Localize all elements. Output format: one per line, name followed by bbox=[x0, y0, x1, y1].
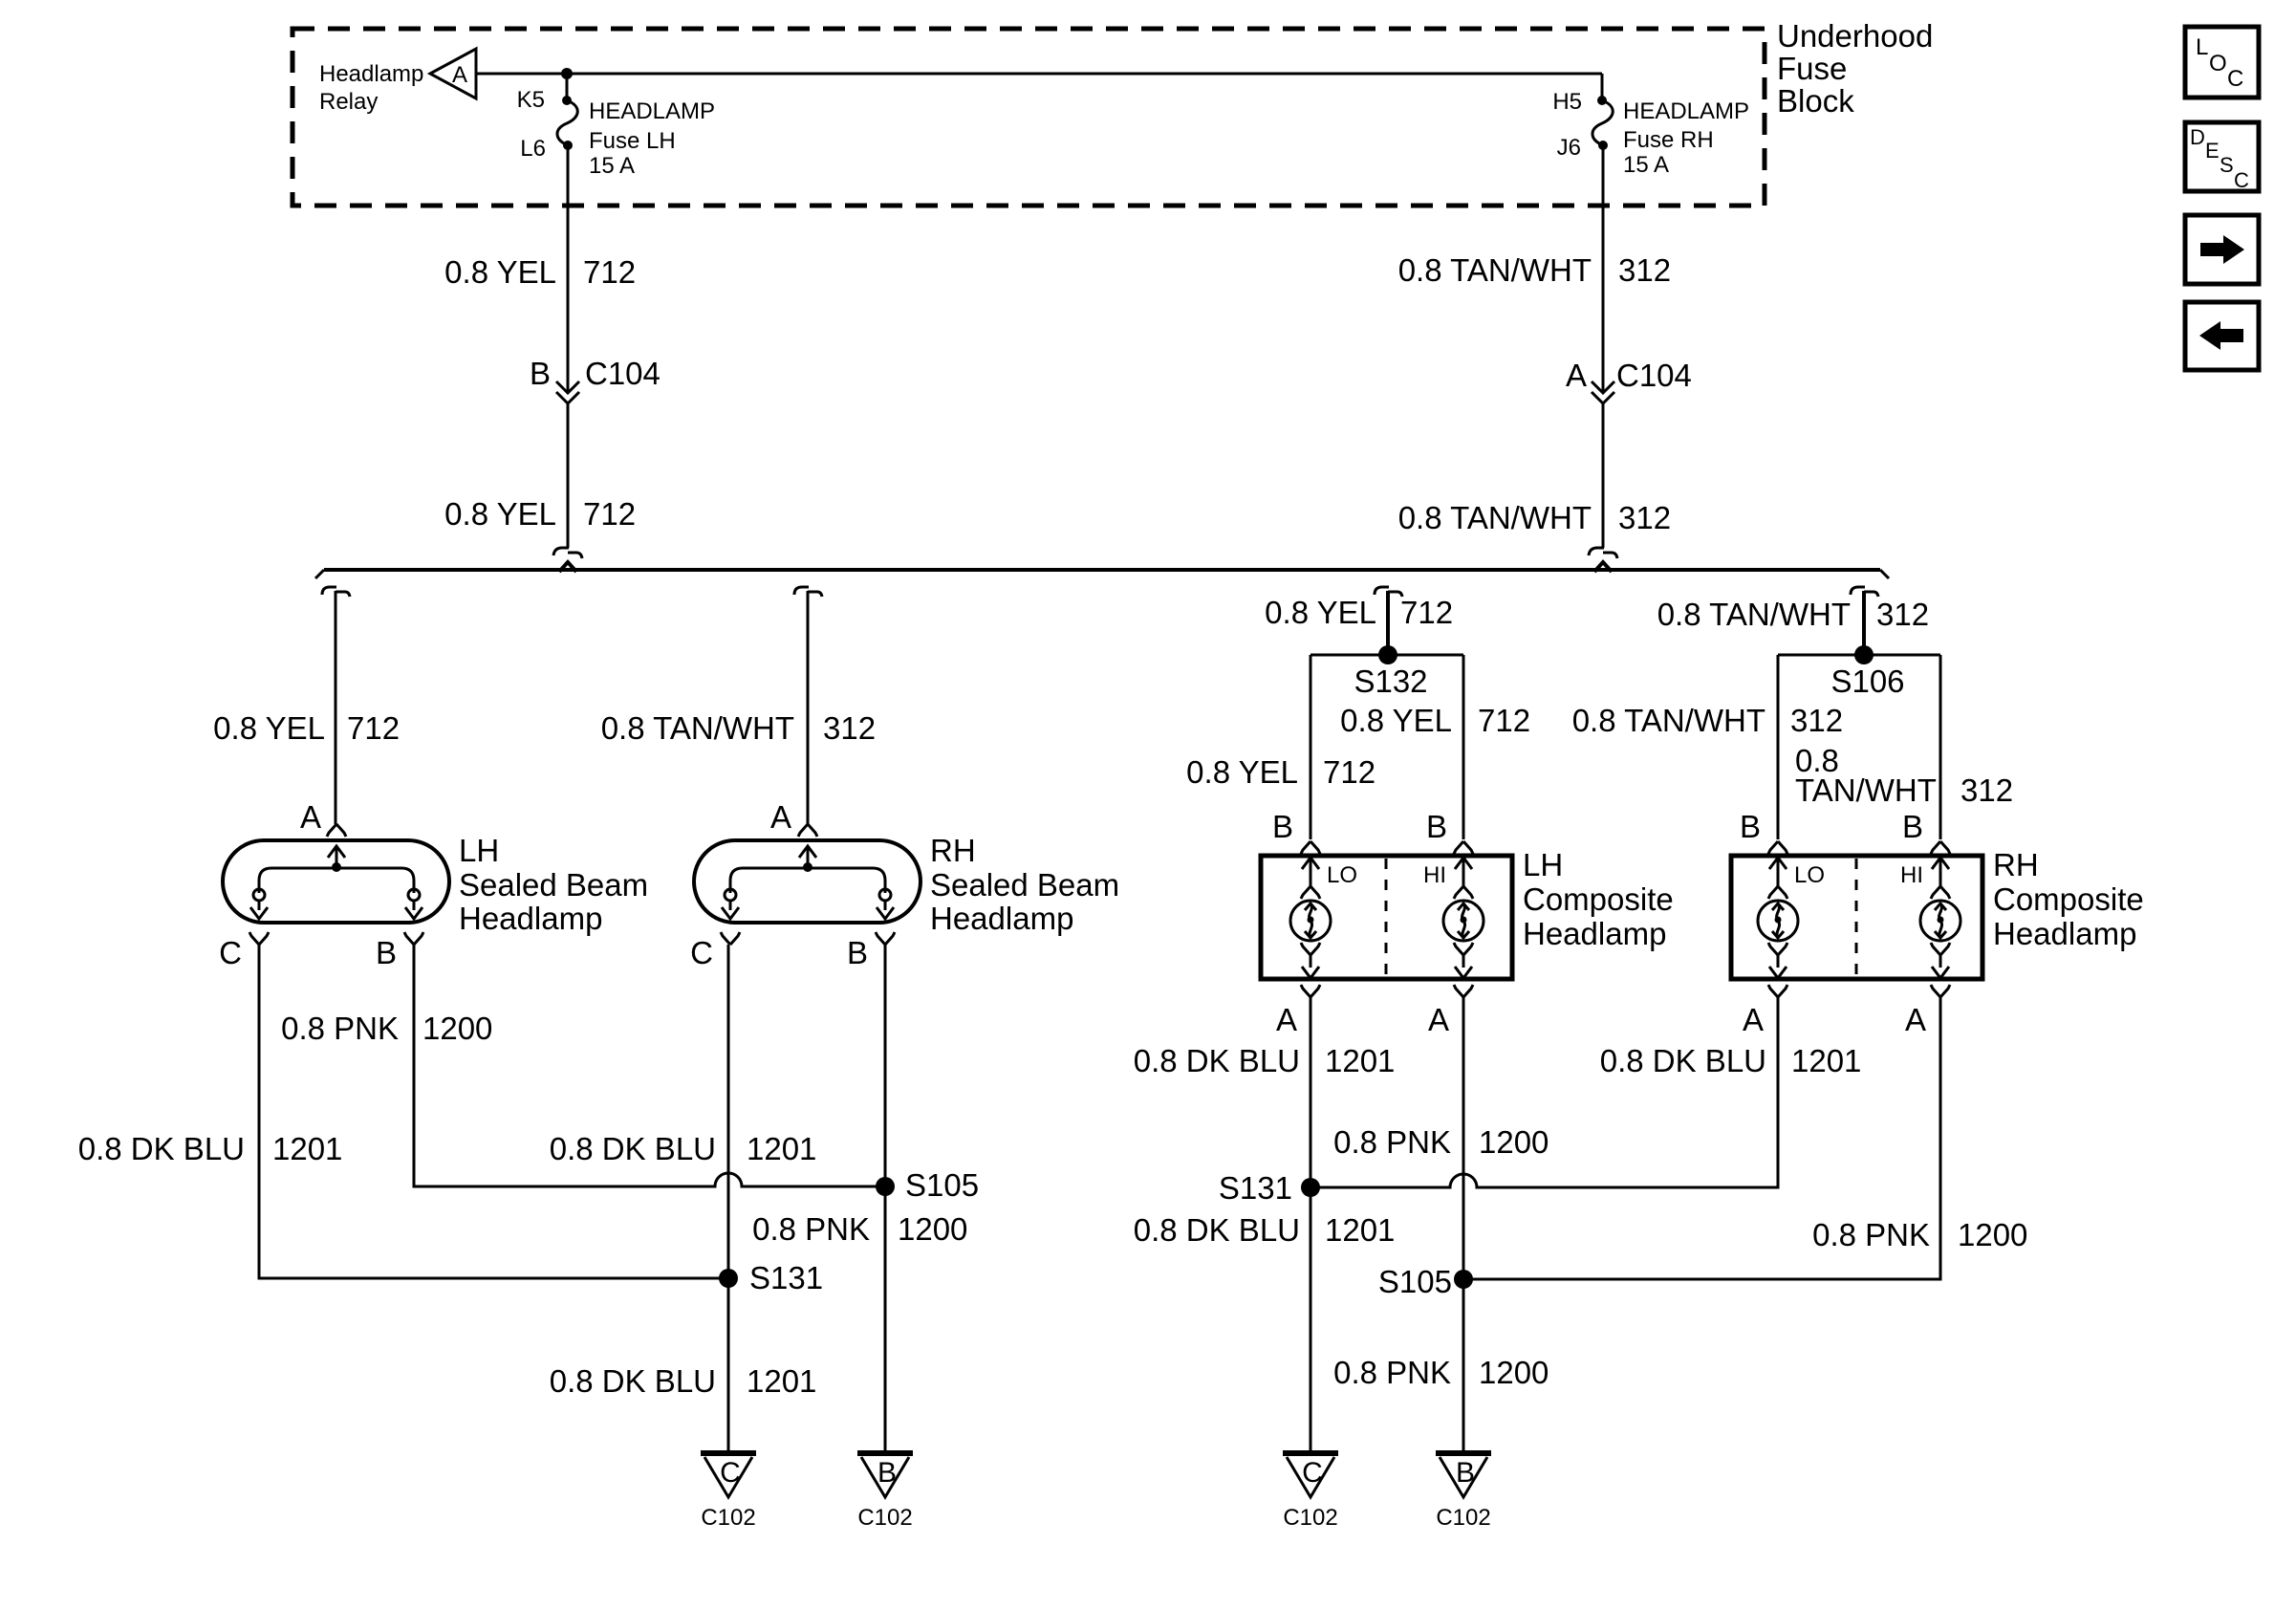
svg-text:0.8 PNK: 0.8 PNK bbox=[1333, 1124, 1451, 1160]
LH Sealed Beam Headlamp oval body bbox=[223, 840, 449, 923]
terminal A fork bbox=[327, 824, 346, 837]
svg-text:L: L bbox=[2196, 34, 2208, 60]
terminal B fork bbox=[404, 932, 423, 945]
fuse HEADLAMP Fuse LH 15A bbox=[557, 100, 577, 145]
svg-text:C: C bbox=[690, 935, 713, 970]
svg-text:B: B bbox=[1426, 809, 1447, 844]
svg-text:0.8 TAN/WHT: 0.8 TAN/WHT bbox=[1572, 703, 1765, 738]
svg-text:Relay: Relay bbox=[319, 89, 378, 115]
svg-text:K5: K5 bbox=[517, 87, 545, 113]
svg-text:0.8 PNK: 0.8 PNK bbox=[752, 1211, 870, 1247]
terminal A fork bbox=[798, 824, 817, 837]
bulb HI column bbox=[1931, 841, 1950, 854]
svg-text:C: C bbox=[2227, 66, 2243, 92]
svg-text:Headlamp: Headlamp bbox=[1993, 916, 2136, 951]
svg-text:A: A bbox=[1276, 1002, 1297, 1037]
svg-text:S132: S132 bbox=[1354, 664, 1427, 699]
wire 0.8 TAN/WHT 312 from fuse RH bbox=[1602, 145, 1605, 392]
fuse HEADLAMP Fuse RH 15A bbox=[1592, 100, 1613, 145]
svg-text:Sealed Beam: Sealed Beam bbox=[459, 867, 648, 903]
internal arrow and filament bbox=[328, 846, 345, 858]
svg-text:0.8 TAN/WHT: 0.8 TAN/WHT bbox=[1657, 597, 1851, 632]
svg-text:1200: 1200 bbox=[1958, 1217, 2027, 1252]
svg-text:312: 312 bbox=[1790, 703, 1843, 738]
RH Sealed Beam Headlamp oval body bbox=[694, 840, 921, 923]
svg-text:A: A bbox=[452, 62, 467, 88]
svg-text:S131: S131 bbox=[749, 1260, 823, 1295]
wire corner down to fuse RH pin H5 bbox=[1601, 74, 1604, 100]
svg-text:S131: S131 bbox=[1219, 1170, 1292, 1206]
bulb HI column bbox=[1454, 841, 1473, 854]
splice S106 bbox=[1854, 645, 1874, 664]
svg-text:C102: C102 bbox=[701, 1505, 755, 1531]
svg-text:0.8 DK BLU: 0.8 DK BLU bbox=[1134, 1212, 1300, 1248]
svg-text:Composite: Composite bbox=[1993, 881, 2144, 917]
svg-text:C102: C102 bbox=[1283, 1505, 1337, 1531]
svg-text:312: 312 bbox=[823, 710, 876, 746]
svg-text:1201: 1201 bbox=[1791, 1043, 1861, 1078]
svg-text:0.8 YEL: 0.8 YEL bbox=[213, 710, 325, 746]
pin K5 bbox=[562, 96, 572, 105]
svg-text:312: 312 bbox=[1960, 772, 2013, 808]
svg-text:1201: 1201 bbox=[747, 1131, 816, 1166]
svg-text:0.8 TAN/WHT: 0.8 TAN/WHT bbox=[1398, 500, 1592, 535]
wire RH sealed C down to C102 bbox=[727, 945, 730, 1451]
svg-text:712: 712 bbox=[583, 254, 636, 290]
svg-text:312: 312 bbox=[1876, 597, 1929, 632]
RH Composite Headlamp box bbox=[1731, 856, 1982, 979]
splice S105 bbox=[1454, 1270, 1473, 1289]
svg-text:LH: LH bbox=[1523, 847, 1563, 882]
wire stub to splice S132 bbox=[1375, 587, 1402, 597]
svg-text:1200: 1200 bbox=[898, 1211, 967, 1247]
svg-text:Composite: Composite bbox=[1523, 881, 1674, 917]
wire drop to LH sealed beam bbox=[322, 587, 350, 597]
connector C102 terminal C triangle bbox=[1283, 1450, 1338, 1456]
svg-text:0.8 YEL: 0.8 YEL bbox=[444, 254, 556, 290]
Underhood Fuse Block dashed box bbox=[292, 29, 1765, 206]
wire RH composite HI(A) to S105 bbox=[1463, 997, 1940, 1279]
svg-text:312: 312 bbox=[1618, 500, 1671, 535]
svg-text:S105: S105 bbox=[1378, 1264, 1452, 1299]
svg-text:0.8 YEL: 0.8 YEL bbox=[1186, 754, 1298, 790]
svg-text:712: 712 bbox=[1323, 754, 1375, 790]
wire to LH composite LO bbox=[1310, 655, 1312, 839]
svg-text:0.8 DK BLU: 0.8 DK BLU bbox=[550, 1363, 716, 1399]
splice S132 bbox=[1378, 645, 1397, 664]
svg-text:0.8 TAN/WHT: 0.8 TAN/WHT bbox=[601, 710, 794, 746]
svg-text:15 A: 15 A bbox=[1623, 152, 1669, 178]
svg-text:S: S bbox=[2220, 153, 2234, 177]
connector C102 terminal B triangle bbox=[1436, 1450, 1491, 1456]
wire relay to fuses bbox=[476, 73, 1602, 76]
svg-text:C102: C102 bbox=[1436, 1505, 1490, 1531]
svg-text:712: 712 bbox=[1478, 703, 1530, 738]
svg-text:TAN/WHT: TAN/WHT bbox=[1795, 772, 1937, 808]
svg-text:A: A bbox=[1905, 1002, 1926, 1037]
wire LH composite HI(A) to S105 down to C102 bbox=[1462, 997, 1465, 1451]
svg-text:0.8 DK BLU: 0.8 DK BLU bbox=[1134, 1043, 1300, 1078]
wire S132 branch bbox=[1310, 654, 1463, 657]
svg-text:HI: HI bbox=[1900, 862, 1923, 888]
svg-text:H5: H5 bbox=[1552, 89, 1582, 115]
bulb LO column bbox=[1768, 841, 1787, 854]
connector C102 terminal B triangle bbox=[857, 1450, 913, 1456]
svg-text:C: C bbox=[219, 935, 242, 970]
svg-text:B: B bbox=[847, 935, 868, 970]
svg-text:C: C bbox=[1302, 1457, 1323, 1489]
svg-text:1201: 1201 bbox=[1325, 1212, 1395, 1248]
svg-text:C: C bbox=[2234, 168, 2249, 192]
svg-text:RH: RH bbox=[1993, 847, 2039, 882]
svg-text:A: A bbox=[1428, 1002, 1449, 1037]
Headlamp Relay connector triangle A bbox=[430, 49, 476, 98]
svg-text:J6: J6 bbox=[1557, 135, 1581, 161]
LOC nav box bbox=[2185, 27, 2259, 98]
svg-text:LO: LO bbox=[1794, 862, 1825, 888]
left arrow nav box bbox=[2185, 302, 2259, 370]
svg-text:B: B bbox=[1456, 1457, 1475, 1489]
wire RH sealed B down to C102 bbox=[884, 945, 887, 1451]
svg-text:HEADLAMP: HEADLAMP bbox=[589, 98, 715, 124]
wire LH sealed B to S105 with hop bbox=[414, 945, 885, 1186]
svg-text:E: E bbox=[2205, 139, 2220, 163]
splice S131 bbox=[1301, 1178, 1320, 1197]
wire 0.8 YEL 712 below C104 bbox=[567, 403, 570, 548]
internal arrow and filament bbox=[799, 846, 816, 858]
wire drop to RH sealed beam bbox=[794, 587, 822, 597]
svg-text:15 A: 15 A bbox=[589, 153, 635, 179]
wire LH composite LO(A) to S131 down to C102 bbox=[1310, 997, 1312, 1451]
DESC nav box bbox=[2185, 122, 2259, 191]
svg-text:Fuse RH: Fuse RH bbox=[1623, 127, 1714, 153]
svg-text:B: B bbox=[1272, 809, 1293, 844]
svg-text:S106: S106 bbox=[1830, 664, 1904, 699]
svg-text:B: B bbox=[877, 1457, 897, 1489]
svg-text:O: O bbox=[2209, 51, 2227, 76]
wire to fuse LH pin K5 bbox=[566, 74, 569, 100]
svg-text:D: D bbox=[2190, 125, 2205, 149]
svg-text:712: 712 bbox=[583, 496, 636, 532]
terminal C fork bbox=[249, 932, 269, 945]
svg-text:1201: 1201 bbox=[272, 1131, 342, 1166]
wire LH sealed C to S131 bbox=[259, 945, 728, 1278]
svg-text:B: B bbox=[1740, 809, 1761, 844]
splice S105 bbox=[876, 1177, 895, 1196]
svg-text:B: B bbox=[1902, 809, 1923, 844]
svg-text:B: B bbox=[376, 935, 397, 970]
svg-text:Fuse LH: Fuse LH bbox=[589, 128, 676, 154]
svg-text:S105: S105 bbox=[905, 1167, 979, 1203]
svg-text:0.8 PNK: 0.8 PNK bbox=[1812, 1217, 1930, 1252]
wire stub to splice S106 bbox=[1851, 587, 1878, 597]
wire to RH composite LO bbox=[1777, 655, 1780, 839]
svg-text:A: A bbox=[1566, 358, 1587, 393]
wire to LH composite HI bbox=[1462, 655, 1465, 839]
wire 0.8 TAN/WHT 312 below C104 bbox=[1602, 403, 1605, 548]
svg-text:0.8 YEL: 0.8 YEL bbox=[1265, 595, 1376, 630]
wire 0.8 YEL 712 from fuse LH bbox=[567, 145, 570, 392]
junction node bbox=[561, 68, 573, 79]
svg-text:0.8 DK BLU: 0.8 DK BLU bbox=[550, 1131, 716, 1166]
svg-text:C: C bbox=[720, 1457, 741, 1489]
svg-text:712: 712 bbox=[347, 710, 400, 746]
svg-text:B: B bbox=[530, 356, 551, 391]
svg-text:1201: 1201 bbox=[1325, 1043, 1395, 1078]
wire break to bus bbox=[553, 548, 582, 558]
svg-text:1200: 1200 bbox=[1479, 1124, 1549, 1160]
svg-text:0.8 DK BLU: 0.8 DK BLU bbox=[1600, 1043, 1766, 1078]
svg-text:Fuse: Fuse bbox=[1777, 51, 1847, 86]
svg-text:L6: L6 bbox=[520, 136, 546, 162]
svg-text:1200: 1200 bbox=[422, 1011, 492, 1046]
svg-text:1201: 1201 bbox=[747, 1363, 816, 1399]
svg-text:C104: C104 bbox=[1616, 358, 1692, 393]
wire to RH composite HI bbox=[1939, 655, 1942, 839]
svg-text:A: A bbox=[770, 799, 791, 835]
svg-text:Underhood: Underhood bbox=[1777, 18, 1933, 54]
wire S106 branch bbox=[1778, 654, 1940, 657]
splice S131 bbox=[719, 1269, 738, 1288]
svg-text:1200: 1200 bbox=[1479, 1355, 1549, 1390]
svg-text:0.8 YEL: 0.8 YEL bbox=[444, 496, 556, 532]
svg-text:Headlamp: Headlamp bbox=[930, 901, 1073, 936]
svg-text:Block: Block bbox=[1777, 83, 1854, 119]
svg-text:712: 712 bbox=[1400, 595, 1453, 630]
svg-text:HEADLAMP: HEADLAMP bbox=[1623, 98, 1749, 124]
svg-text:0.8 TAN/WHT: 0.8 TAN/WHT bbox=[1398, 252, 1592, 288]
terminal B fork bbox=[876, 932, 895, 945]
svg-text:Headlamp: Headlamp bbox=[319, 61, 423, 87]
right arrow nav box bbox=[2185, 215, 2259, 284]
svg-text:0.8 YEL: 0.8 YEL bbox=[1340, 703, 1452, 738]
svg-text:HI: HI bbox=[1423, 862, 1446, 888]
wire break to bus bbox=[1589, 548, 1617, 558]
LH Composite Headlamp box bbox=[1261, 856, 1512, 979]
bus wire bbox=[324, 568, 1880, 572]
terminal C fork bbox=[721, 932, 740, 945]
svg-text:LH: LH bbox=[459, 833, 499, 868]
svg-text:A: A bbox=[1743, 1002, 1764, 1037]
dashed filament divider bbox=[1855, 859, 1858, 976]
svg-text:0.8 PNK: 0.8 PNK bbox=[281, 1011, 399, 1046]
svg-text:Headlamp: Headlamp bbox=[459, 901, 602, 936]
pin L6 bbox=[563, 141, 573, 150]
svg-text:312: 312 bbox=[1618, 252, 1671, 288]
svg-text:C104: C104 bbox=[585, 356, 661, 391]
pin H5 bbox=[1597, 96, 1607, 105]
connector C102 terminal C triangle bbox=[701, 1450, 756, 1456]
pin J6 bbox=[1598, 141, 1608, 150]
bulb LO column bbox=[1301, 841, 1320, 854]
svg-text:LO: LO bbox=[1327, 862, 1357, 888]
dashed filament divider bbox=[1385, 859, 1388, 976]
svg-text:Sealed Beam: Sealed Beam bbox=[930, 867, 1119, 903]
svg-text:A: A bbox=[300, 799, 321, 835]
svg-text:0.8 PNK: 0.8 PNK bbox=[1333, 1355, 1451, 1390]
svg-text:Headlamp: Headlamp bbox=[1523, 916, 1666, 951]
svg-text:0.8 DK BLU: 0.8 DK BLU bbox=[78, 1131, 245, 1166]
svg-text:C102: C102 bbox=[857, 1505, 912, 1531]
svg-text:RH: RH bbox=[930, 833, 976, 868]
wire RH composite LO(A) to S131 with hop bbox=[1310, 997, 1778, 1187]
